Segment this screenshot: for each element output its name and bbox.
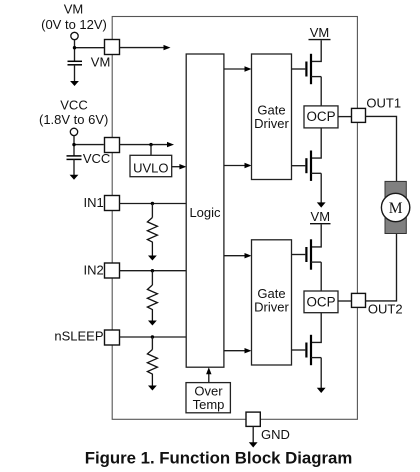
svg-text:OUT2: OUT2: [368, 301, 403, 316]
net VM half-bridge 2 label: [310, 209, 331, 224]
wire FET3 source to OCP2: [320, 262, 322, 291]
wire IN1 to Logic: [120, 203, 187, 205]
svg-text:IN1: IN1: [83, 195, 103, 210]
transistor FET1 high-side HB1: [292, 54, 322, 84]
wire VCC junction to pin: [74, 144, 104, 146]
pin GND: [246, 412, 260, 426]
terminal VM: [71, 32, 78, 39]
svg-text:Logic: Logic: [189, 205, 221, 220]
svg-text:GND: GND: [261, 427, 290, 442]
wire FET2 source to ground: [320, 173, 322, 202]
wire OUT2 to motor: [366, 234, 397, 301]
transistor FET3 high-side HB2: [292, 239, 322, 269]
junction dot IN1: [151, 202, 154, 205]
OCP block 1: [304, 106, 338, 128]
wire OCP2 to OUT2 pin: [338, 300, 352, 302]
wire OCP1 to OUT1 pin: [338, 116, 352, 118]
pin OUT1: [352, 108, 366, 122]
pin IN2: [105, 263, 120, 278]
wire VM2 to FET3 drain: [311, 224, 321, 247]
resistor IN1 pulldown: [147, 204, 157, 256]
wire IN2 to Logic: [120, 270, 187, 272]
pin IN1: [105, 196, 120, 211]
svg-text:M: M: [389, 200, 403, 217]
wire OUT1 to motor: [366, 116, 397, 181]
node VM supply label (0V to 12V): [41, 2, 107, 33]
wire nSLEEP to Logic: [120, 336, 187, 338]
svg-text:VCC: VCC: [83, 151, 110, 166]
Gate Driver block 1: [252, 54, 292, 180]
pin VM: [105, 40, 120, 55]
resistor nSLEEP pulldown: [147, 337, 157, 386]
wire Logic to Gate Driver 2 top arrow: [224, 255, 246, 257]
svg-text:Figure 1. Function Block Diagr: Figure 1. Function Block Diagram: [85, 449, 353, 468]
wire FET1 source to OCP1: [320, 77, 322, 106]
resistor IN2 pulldown: [147, 271, 157, 321]
svg-text:Driver: Driver: [254, 116, 289, 131]
IC outline boundary: [112, 17, 357, 420]
ground arrow FET4 source: [317, 388, 326, 393]
wire GND pin to ground arrow: [252, 426, 254, 442]
pin VCC: [105, 138, 120, 153]
svg-text:OCP: OCP: [306, 294, 335, 309]
junction dot VCC internal: [149, 143, 152, 146]
net VM half-bridge 1 label: [309, 25, 331, 40]
junction dot IN2: [151, 269, 154, 272]
wire junction to UVLO: [150, 145, 152, 156]
ground arrow IN2 resistor: [148, 321, 157, 326]
OCP block 2: [304, 291, 338, 313]
svg-text:VM: VM: [311, 209, 331, 224]
wire VM terminal to junction and capacitor: [74, 40, 76, 62]
pin OUT2: [352, 293, 366, 307]
svg-text:(1.8V to 6V): (1.8V to 6V): [39, 112, 108, 127]
wire Logic to Gate Driver 1 bottom arrow: [224, 165, 246, 167]
motor M circle: [381, 193, 409, 221]
svg-text:nSLEEP: nSLEEP: [54, 328, 103, 343]
svg-text:VM: VM: [310, 25, 330, 40]
wire VM1 to FET1 drain: [311, 40, 321, 61]
svg-text:IN2: IN2: [83, 262, 103, 277]
svg-text:OUT1: OUT1: [366, 96, 401, 111]
ground arrow VCC cap: [70, 175, 79, 180]
transistor FET2 low-side HB1: [292, 151, 322, 181]
ground arrow FET2 source: [317, 202, 326, 207]
svg-text:VM: VM: [64, 2, 84, 17]
capacitor VCC bypass: [67, 156, 82, 175]
UVLO block U2: [130, 155, 172, 176]
ground arrow nSLEEP resistor: [148, 386, 157, 391]
wire UVLO to Logic arrow: [172, 166, 181, 168]
ground arrow VM cap: [70, 81, 79, 86]
svg-text:(0V to 12V): (0V to 12V): [41, 17, 107, 32]
svg-text:OCP: OCP: [306, 109, 335, 124]
junction dot VCC: [72, 143, 75, 146]
wire OCP2 to FET4 drain: [311, 313, 321, 343]
junction dot VM: [73, 46, 76, 49]
capacitor VM bypass: [68, 61, 83, 81]
Logic block: [186, 54, 224, 367]
wire Logic to Gate Driver 1 top arrow: [224, 68, 246, 70]
svg-text:UVLO: UVLO: [133, 161, 168, 176]
svg-text:Driver: Driver: [254, 300, 289, 315]
wire VM pin internal arrow: [120, 47, 165, 49]
terminal VCC: [70, 128, 77, 135]
junction dot nSLEEP: [151, 335, 154, 338]
wire Over Temp to Logic arrow: [208, 373, 210, 383]
Gate Driver block 2: [252, 240, 292, 365]
pin nSLEEP: [105, 330, 120, 345]
svg-text:Temp: Temp: [193, 397, 225, 412]
wire FET4 source to ground: [320, 358, 322, 388]
wire OCP1 to FET2 drain: [311, 128, 321, 158]
wire VCC pin internal arrow: [120, 144, 169, 146]
ground arrow GND: [249, 442, 258, 447]
node VCC supply label (1.8V to 6V): [39, 98, 108, 127]
wire Logic to Gate Driver 2 bottom arrow: [224, 350, 246, 352]
transistor FET4 low-side HB2: [292, 335, 322, 365]
Over Temp block: [186, 383, 230, 413]
ground arrow IN1 resistor: [148, 256, 157, 261]
wire VCC terminal to junction and capacitor: [73, 136, 75, 156]
svg-text:VM: VM: [91, 54, 111, 69]
svg-text:VCC: VCC: [60, 98, 87, 113]
motor M body: [385, 181, 406, 233]
wire VM junction to pin: [75, 47, 105, 49]
